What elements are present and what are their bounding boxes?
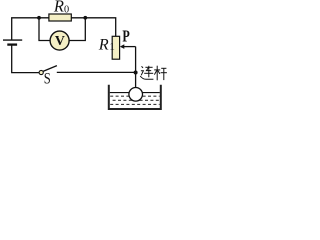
wire voltmeter branch right — [69, 18, 85, 41]
svg-text:0: 0 — [64, 4, 69, 15]
wire R0 right to top-right corner down to R1 — [71, 18, 116, 37]
svg-text:R: R — [98, 35, 109, 53]
resistor R0 — [49, 14, 71, 21]
liquid shading dashes row 3 — [110, 103, 159, 105]
svg-text:S: S — [44, 71, 51, 88]
switch S lever — [43, 66, 57, 72]
wire battery bottom to switch — [12, 45, 40, 73]
svg-text:V: V — [55, 33, 65, 48]
float ball — [129, 88, 143, 102]
resistor R1 (rheostat body) — [112, 36, 119, 59]
slider arm wire P — [121, 46, 136, 48]
slider arrowhead — [120, 44, 124, 49]
wire voltmeter branch left — [39, 18, 50, 41]
voltmeter V — [50, 31, 69, 50]
wire battery top to R0 — [12, 18, 50, 40]
liquid shading dashes row 1 — [110, 95, 159, 97]
liquid shading dashes row 2 — [113, 99, 160, 101]
liquid surface — [110, 92, 160, 94]
container tub — [109, 85, 161, 109]
node junction on rod — [134, 71, 138, 75]
battery — [3, 40, 22, 45]
svg-text:1: 1 — [109, 41, 115, 53]
wire switch to junction — [57, 71, 136, 73]
node junction left on top rail — [37, 16, 41, 20]
switch S pivot — [39, 70, 43, 74]
svg-text:P: P — [122, 27, 129, 46]
label 连 (drawn strokes) — [140, 66, 153, 79]
svg-text:R: R — [53, 0, 64, 16]
connecting rod wire down from slider — [135, 47, 137, 88]
node junction right on top rail — [83, 16, 87, 20]
label 杆 (drawn strokes) — [154, 66, 167, 81]
